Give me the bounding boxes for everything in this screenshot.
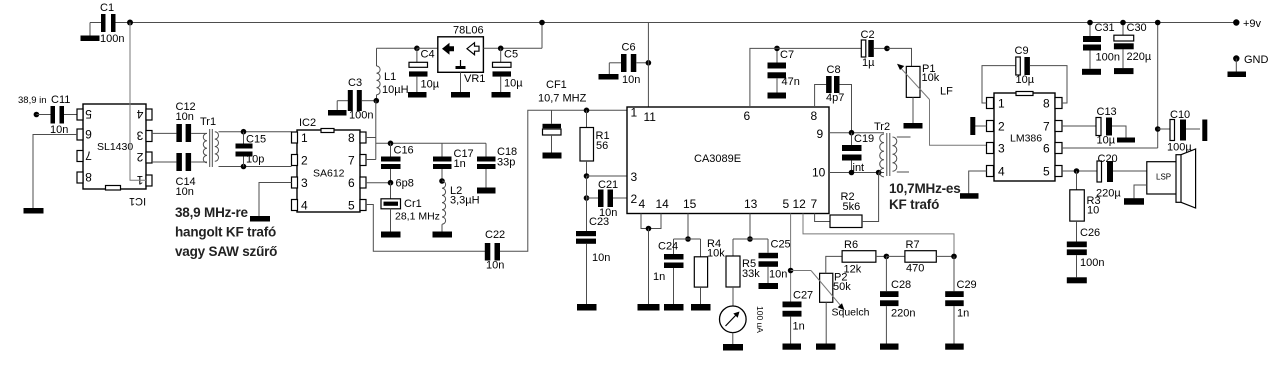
ground (LM386 pin2): [970, 117, 986, 135]
ground (C7): [768, 93, 787, 99]
node junction C7: [774, 46, 780, 52]
svg-text:2: 2: [998, 120, 1005, 134]
wire VR1 to ground: [460, 72, 462, 92]
node junction pin3 row: [584, 173, 590, 179]
pin 5 IC2: [348, 199, 366, 213]
svg-text:6: 6: [348, 176, 355, 190]
node junction pin5/P2 wiper: [788, 268, 794, 274]
node junction R6/R7/C28: [884, 254, 890, 260]
capacitor C24: [653, 239, 684, 304]
capacitor C14: [152, 153, 196, 198]
svg-text:14: 14: [656, 197, 670, 211]
svg-text:100n: 100n: [100, 33, 124, 45]
capacitor C2: [861, 29, 888, 69]
wire R6 to P2 top: [826, 256, 842, 273]
ground (C4): [408, 92, 427, 98]
capacitor C5: [493, 48, 524, 92]
ground (P2): [816, 344, 836, 350]
pin 1 IC1: [136, 173, 152, 187]
ground (C6): [599, 63, 619, 80]
svg-text:C5: C5: [504, 49, 518, 61]
svg-text:C9: C9: [1015, 45, 1029, 57]
svg-text:6: 6: [744, 109, 751, 123]
svg-text:10µ: 10µ: [1097, 135, 1116, 147]
capacitor C31: [1083, 20, 1120, 69]
svg-text:56: 56: [596, 140, 608, 152]
svg-text:1n: 1n: [454, 158, 466, 170]
wire LM386 pin5 row: [1062, 170, 1097, 172]
svg-text:4: 4: [136, 107, 143, 121]
wire IC2 pin8/pin7 to L1 node: [366, 101, 376, 160]
ground (C26): [1067, 277, 1087, 283]
svg-text:13: 13: [744, 197, 758, 211]
wire +9V top rail: [115, 22, 1236, 24]
capacitor C4: [409, 48, 440, 92]
pin 7 LM386: [1043, 120, 1062, 134]
svg-text:4p7: 4p7: [826, 92, 844, 104]
node 38,9 in input: [18, 95, 47, 117]
svg-text:3,3µH: 3,3µH: [450, 195, 480, 207]
op-amp U4 / LM386 body: [994, 92, 1055, 182]
wire R1 to CA3089E pin3: [587, 175, 628, 177]
transformer Tr1: [191, 116, 243, 167]
svg-text:SA612: SA612: [313, 168, 345, 180]
svg-text:10µ: 10µ: [1016, 74, 1035, 86]
wire IC2 pin3 to ground: [259, 183, 292, 217]
svg-text:15: 15: [683, 197, 697, 211]
pin 2 LM386: [987, 120, 1006, 134]
resistor R1: [580, 110, 610, 176]
svg-text:3: 3: [136, 129, 143, 143]
wire IC1 pin6 to ground: [33, 135, 77, 209]
svg-text:50k: 50k: [833, 281, 851, 293]
wire P2 to ground: [825, 302, 827, 343]
wire CA3089E pin9 to Tr2: [829, 132, 884, 134]
svg-text:CF1: CF1: [546, 79, 567, 91]
wire P1 to ground: [912, 97, 914, 123]
svg-text:Squelch: Squelch: [832, 307, 870, 319]
wire Tr1 to IC2 pin2: [244, 166, 292, 168]
svg-text:3: 3: [301, 176, 308, 190]
svg-text:6p8: 6p8: [396, 178, 414, 190]
ground (GND terminal): [1228, 72, 1247, 78]
svg-text:10: 10: [1087, 205, 1099, 217]
node junction C17/L2: [439, 178, 445, 184]
capacitor C17: [433, 143, 474, 181]
pin 1 IC2: [292, 131, 309, 145]
ground (C29): [945, 344, 964, 350]
svg-text:3: 3: [631, 170, 638, 184]
wire CA3089E pin12 squelch line: [803, 214, 954, 257]
svg-text:5k6: 5k6: [843, 201, 861, 213]
capacitor C10: [1158, 109, 1200, 154]
svg-text:CA3089E: CA3089E: [694, 153, 741, 165]
op-amp U3 / CA3089E body: [627, 107, 829, 214]
svg-text:C24: C24: [658, 241, 678, 253]
svg-text:7: 7: [811, 197, 818, 211]
svg-text:C29: C29: [957, 279, 977, 291]
text annotation 10,7MHz trafo: [889, 181, 961, 212]
node junction C15 top: [241, 129, 247, 135]
wire L1 top to VR1 row: [377, 47, 417, 49]
svg-text:6: 6: [1043, 142, 1050, 156]
svg-text:100n: 100n: [349, 110, 373, 122]
svg-text:C11: C11: [51, 94, 70, 106]
svg-text:2: 2: [136, 150, 143, 164]
svg-text:C27: C27: [793, 290, 813, 302]
svg-text:C25: C25: [771, 239, 791, 251]
svg-text:KF trafó: KF trafó: [889, 197, 939, 212]
ground (C5): [492, 92, 511, 98]
ground (IC2 pin3): [250, 216, 270, 222]
svg-text:R6: R6: [844, 239, 858, 251]
pin 5 IC1: [77, 107, 92, 121]
crystal Cr1: [381, 183, 440, 232]
node +9v terminal: [1233, 18, 1261, 30]
ground (CF1): [543, 153, 562, 159]
svg-text:1n: 1n: [793, 321, 805, 333]
pin 3 IC2: [292, 176, 309, 190]
ground (IC1 pin6): [24, 208, 44, 214]
text annotation 38,9 MHz filter: [175, 205, 277, 259]
pin 3 LM386: [987, 142, 1006, 156]
op-amp U2 / IC2 SA612 body: [297, 117, 360, 212]
svg-text:33p: 33p: [497, 157, 515, 169]
wire pin15 row: [674, 238, 701, 240]
wire CA3089E pin6 to C2: [750, 48, 862, 107]
svg-text:2: 2: [631, 192, 638, 206]
svg-text:220n: 220n: [891, 308, 915, 320]
node junction C4: [414, 46, 420, 52]
speaker LSP: [1134, 149, 1196, 208]
svg-text:12: 12: [793, 197, 807, 211]
svg-text:C8: C8: [827, 64, 841, 76]
node junction C6: [646, 60, 652, 66]
wire CA3089E pin15: [687, 214, 689, 240]
svg-text:C2: C2: [861, 29, 875, 41]
pin 6 IC2: [348, 176, 366, 190]
potentiometer P2: [791, 271, 852, 311]
svg-text:+9v: +9v: [1243, 18, 1262, 30]
svg-text:10µ: 10µ: [504, 78, 523, 90]
node junction Tr2/R2: [876, 170, 882, 176]
svg-text:8: 8: [348, 131, 355, 145]
resistor R7: [886, 239, 954, 275]
svg-text:7: 7: [1043, 120, 1050, 134]
capacitor C6: [609, 42, 648, 87]
svg-text:4: 4: [998, 165, 1005, 179]
pin 6 IC1: [77, 127, 92, 141]
wire C16 row: [376, 142, 486, 144]
node junction R7/C29: [951, 254, 957, 260]
svg-text:Tr1: Tr1: [200, 116, 216, 128]
svg-text:C13: C13: [1097, 106, 1117, 118]
transformer Tr2: [874, 121, 911, 177]
svg-text:C28: C28: [891, 279, 911, 291]
svg-text:8: 8: [811, 109, 818, 123]
svg-text:LF: LF: [940, 86, 953, 98]
ground (R4): [691, 304, 711, 311]
svg-text:220µ: 220µ: [1127, 51, 1152, 63]
wire LM386 pin6 to rail: [1062, 23, 1158, 149]
ground (LM386 pin4): [960, 193, 979, 199]
capacitor C9 bootstrap loop: [982, 45, 1067, 103]
ground (LSP): [1124, 198, 1144, 205]
ceramic filter CF1: [538, 79, 587, 153]
capacitor C28: [880, 256, 915, 343]
ground (C23): [577, 304, 597, 311]
node junction pin5/R3: [1074, 168, 1080, 174]
svg-text:4: 4: [301, 199, 308, 213]
svg-text:C19: C19: [854, 133, 874, 145]
wire junction column pin3/C21: [586, 176, 588, 231]
wire rail to VR1 input: [541, 23, 543, 49]
node junction C5: [498, 46, 504, 52]
svg-text:C7: C7: [780, 49, 794, 61]
svg-text:C16: C16: [394, 145, 414, 157]
svg-text:1n: 1n: [957, 308, 969, 320]
wire LM386 pin4 to ground: [969, 171, 987, 194]
capacitor C8: [815, 64, 852, 133]
svg-text:470: 470: [906, 263, 924, 275]
svg-text:C3: C3: [348, 77, 362, 89]
svg-text:100n: 100n: [1080, 257, 1104, 269]
svg-text:C1: C1: [100, 2, 114, 14]
capacitor C15: [236, 132, 267, 167]
svg-text:10k: 10k: [707, 248, 725, 260]
svg-text:6: 6: [85, 127, 92, 141]
node junction C19 top: [849, 130, 855, 136]
svg-text:GND: GND: [1244, 54, 1269, 66]
capacitor C16: [381, 143, 414, 182]
svg-text:C30: C30: [1127, 22, 1147, 34]
node 6p8 junction IC2 pin6: [366, 178, 414, 190]
svg-text:vagy SAW szűrő: vagy SAW szűrő: [175, 244, 277, 259]
node GND terminal: [1233, 54, 1268, 72]
wire rail to CA3089E pin11: [647, 23, 649, 108]
svg-text:47n: 47n: [782, 76, 800, 88]
svg-text:R7: R7: [906, 239, 920, 251]
node junction pin13: [747, 236, 753, 242]
node junction C10: [1155, 126, 1161, 132]
svg-text:10n: 10n: [592, 252, 610, 264]
pin 5 LM386: [1043, 165, 1062, 179]
ground (pin4/14): [638, 304, 660, 311]
meter M1 100uA: [720, 306, 766, 344]
pin 2 IC2: [292, 154, 309, 168]
svg-text:5: 5: [1043, 165, 1050, 179]
ground (C18): [477, 188, 496, 194]
svg-text:10µ: 10µ: [421, 79, 440, 91]
capacitor C27: [783, 290, 814, 344]
svg-text:SL1430: SL1430: [97, 141, 133, 153]
svg-text:10,7MHz-es: 10,7MHz-es: [889, 181, 961, 196]
svg-text:100n: 100n: [1096, 52, 1120, 64]
wire CA3089E pin13: [749, 214, 751, 240]
svg-text:10n: 10n: [176, 186, 194, 198]
svg-text:10k: 10k: [922, 72, 940, 84]
wire pin13 row: [733, 238, 768, 240]
svg-text:C22: C22: [485, 229, 505, 241]
svg-text:8: 8: [85, 170, 92, 184]
capacitor C18: [477, 143, 517, 188]
svg-text:33k: 33k: [742, 268, 760, 280]
pin 8 IC1: [77, 170, 92, 184]
ground (L2): [433, 232, 453, 238]
node junction C15 bottom: [241, 164, 247, 170]
ground (C10): [1202, 120, 1207, 142]
svg-text:4: 4: [639, 197, 646, 211]
ground (VR1): [451, 92, 470, 98]
svg-text:10µH: 10µH: [382, 84, 409, 96]
capacitor C25: [759, 239, 791, 284]
wire P1 wiper to LM386 pin3: [930, 100, 987, 146]
svg-text:VR1: VR1: [464, 73, 485, 85]
svg-text:C23: C23: [589, 216, 609, 228]
pin 4 IC2: [292, 199, 309, 213]
ground (C27): [783, 344, 802, 350]
svg-text:hangolt KF trafó: hangolt KF trafó: [175, 225, 276, 240]
svg-text:100 uA: 100 uA: [755, 306, 765, 333]
svg-text:C31: C31: [1095, 22, 1115, 34]
svg-text:L1: L1: [384, 71, 396, 83]
svg-text:IC1: IC1: [129, 195, 146, 207]
wire Tr1 to IC2 pin1: [244, 131, 292, 133]
node junction C2/P1: [884, 46, 890, 52]
node junction C16 top: [388, 141, 394, 147]
ground (C3): [328, 101, 347, 116]
svg-text:9: 9: [817, 127, 824, 141]
node junction pin15: [685, 236, 691, 242]
pin 3 IC1: [136, 129, 152, 143]
pin 8 LM386: [1043, 97, 1062, 111]
wire C2 node to P1: [887, 48, 912, 66]
svg-text:12k: 12k: [844, 264, 862, 276]
svg-text:5: 5: [348, 199, 355, 213]
node junction L1/C3/pin8: [374, 98, 380, 104]
capacitor C7: [768, 48, 800, 92]
svg-text:Cr1: Cr1: [404, 198, 422, 210]
ground (P1): [904, 123, 923, 129]
wire C4 to VR1: [417, 47, 438, 49]
pin 4 LM386: [987, 165, 1006, 179]
pin 7 IC2: [348, 154, 366, 168]
svg-text:Tr2: Tr2: [874, 121, 890, 133]
wire CA3089E pin4/pin14 bracket: [641, 214, 661, 305]
wire CA3089E pin10 to Tr2: [829, 172, 884, 174]
inductor L2: [442, 181, 480, 232]
svg-text:7: 7: [348, 154, 355, 168]
ground (C31): [1082, 69, 1101, 75]
svg-text:C20: C20: [1098, 153, 1118, 165]
pin 8 IC2: [348, 131, 366, 145]
svg-text:7: 7: [85, 149, 92, 163]
resistor R3: [1070, 171, 1101, 242]
svg-text:1: 1: [631, 106, 638, 120]
pin 4 IC1: [136, 107, 152, 121]
capacitor C29: [945, 256, 976, 343]
svg-text:5: 5: [783, 197, 790, 211]
svg-text:11: 11: [644, 110, 657, 124]
capacitor C12: [152, 101, 196, 142]
ground (C28): [880, 344, 899, 350]
ground (C1): [81, 23, 100, 42]
svg-text:C10: C10: [1170, 109, 1190, 121]
svg-text:28,1 MHz: 28,1 MHz: [395, 211, 440, 223]
ground (Cr1): [381, 232, 401, 238]
wire rail to IC1 pin1: [130, 23, 146, 181]
wire C22 to CF1 row: [500, 110, 627, 251]
capacitor C26: [1067, 227, 1105, 277]
node junction C21 row: [584, 195, 590, 201]
capacitor C21: [587, 179, 628, 219]
node junction rail/VR1: [539, 20, 545, 26]
svg-text:10n: 10n: [622, 74, 640, 86]
node junction R1 top: [584, 108, 590, 114]
svg-text:1µ: 1µ: [862, 57, 875, 69]
resistor R6: [842, 239, 886, 276]
resistor R4: [694, 238, 725, 304]
ground (C13): [1117, 138, 1135, 143]
svg-text:10,7 MHZ: 10,7 MHZ: [538, 93, 587, 105]
node junction rail/pin6 column: [1155, 20, 1161, 26]
svg-text:1: 1: [998, 97, 1005, 111]
svg-text:C4: C4: [421, 49, 435, 61]
pin 2 IC1: [136, 150, 152, 164]
node junction C19 bottom: [849, 170, 855, 176]
capacitor C30: [1114, 20, 1152, 68]
svg-text:C15: C15: [246, 134, 266, 146]
wire CA3089E pin5 down: [790, 214, 792, 302]
capacitor C3: [337, 77, 376, 122]
op-amp U1 / IC1 SL1430 body: [83, 104, 146, 207]
svg-text:10n: 10n: [176, 111, 194, 123]
capacitor C23: [576, 216, 610, 304]
svg-text:10p: 10p: [246, 154, 264, 166]
svg-text:78L06: 78L06: [453, 25, 484, 37]
capacitor C19: [842, 133, 874, 174]
inductor L1: [377, 48, 409, 100]
ground (meter): [723, 344, 743, 351]
svg-text:5: 5: [85, 107, 92, 121]
svg-text:C6: C6: [622, 42, 636, 54]
svg-text:1: 1: [301, 131, 308, 145]
svg-text:C26: C26: [1080, 227, 1100, 239]
svg-text:1n: 1n: [653, 271, 665, 283]
wire IC2 pin5 to C22: [366, 205, 485, 252]
svg-text:38,9 in: 38,9 in: [18, 95, 47, 106]
svg-text:2: 2: [301, 154, 308, 168]
svg-text:LSP: LSP: [1156, 173, 1171, 182]
pin 6 LM386: [1043, 142, 1062, 156]
capacitor C13: [1062, 106, 1126, 147]
pin 7 IC1: [77, 149, 92, 163]
svg-text:10n: 10n: [769, 269, 787, 281]
ground (C25): [759, 283, 779, 289]
svg-text:3: 3: [998, 142, 1005, 156]
capacitor C20: [1096, 153, 1147, 200]
svg-text:10: 10: [812, 166, 826, 180]
ground (C24): [664, 304, 684, 311]
voltage regulator VR1 78L06: [438, 25, 486, 86]
node junction C1/rail: [127, 20, 133, 26]
capacitor C22: [485, 229, 505, 272]
svg-text:C21: C21: [598, 179, 618, 191]
wire VR1 to C5: [483, 47, 542, 49]
svg-text:8: 8: [1043, 97, 1050, 111]
svg-text:IC2: IC2: [299, 117, 316, 129]
svg-text:38,9 MHz-re: 38,9 MHz-re: [175, 205, 249, 220]
